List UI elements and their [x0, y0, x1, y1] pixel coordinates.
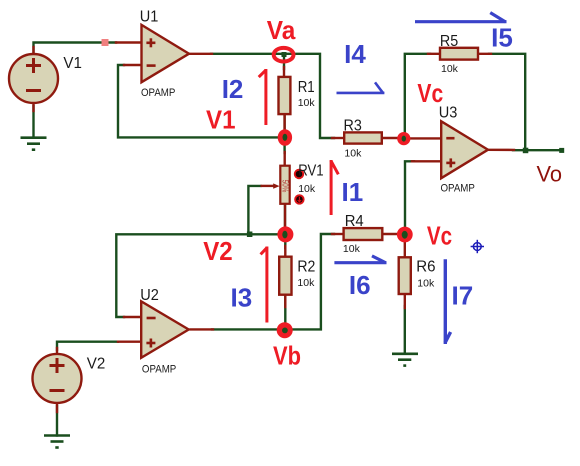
svg-text:R1: R1 [298, 79, 315, 96]
svg-text:R3: R3 [344, 117, 362, 134]
svg-text:Vc: Vc [417, 78, 443, 108]
svg-text:I1: I1 [342, 177, 364, 207]
svg-text:I4: I4 [344, 39, 366, 69]
svg-text:10k: 10k [441, 63, 459, 75]
svg-text:I2: I2 [222, 74, 244, 104]
svg-text:V1: V1 [206, 104, 236, 134]
svg-text:10k: 10k [343, 243, 361, 255]
svg-text:V2: V2 [203, 236, 233, 266]
svg-text:OPAMP: OPAMP [141, 87, 175, 99]
svg-text:I6: I6 [349, 270, 371, 300]
svg-text:10k: 10k [417, 277, 435, 289]
svg-text:Va: Va [267, 15, 296, 45]
svg-text:10k: 10k [298, 183, 316, 195]
svg-text:OPAMP: OPAMP [441, 183, 475, 195]
svg-text:RV1: RV1 [298, 163, 323, 180]
svg-text:V1: V1 [63, 55, 82, 72]
svg-text:R6: R6 [416, 258, 435, 275]
svg-text:Vo: Vo [537, 162, 563, 187]
svg-text:I3: I3 [231, 283, 253, 313]
svg-text:U2: U2 [140, 287, 159, 304]
svg-text:R4: R4 [345, 213, 364, 230]
svg-text:I7: I7 [452, 281, 474, 311]
svg-text:R5: R5 [440, 33, 458, 50]
svg-text:OPAMP: OPAMP [142, 363, 176, 375]
svg-text:10k: 10k [298, 97, 316, 109]
svg-text:10k: 10k [297, 277, 315, 289]
svg-text:50%: 50% [281, 180, 291, 193]
svg-text:10k: 10k [344, 148, 362, 160]
svg-text:V2: V2 [87, 355, 106, 372]
svg-text:U1: U1 [140, 8, 159, 25]
svg-text:I5: I5 [491, 23, 513, 53]
svg-text:R2: R2 [297, 259, 315, 276]
svg-text:Vb: Vb [273, 340, 301, 370]
svg-text:Vc: Vc [427, 220, 452, 250]
